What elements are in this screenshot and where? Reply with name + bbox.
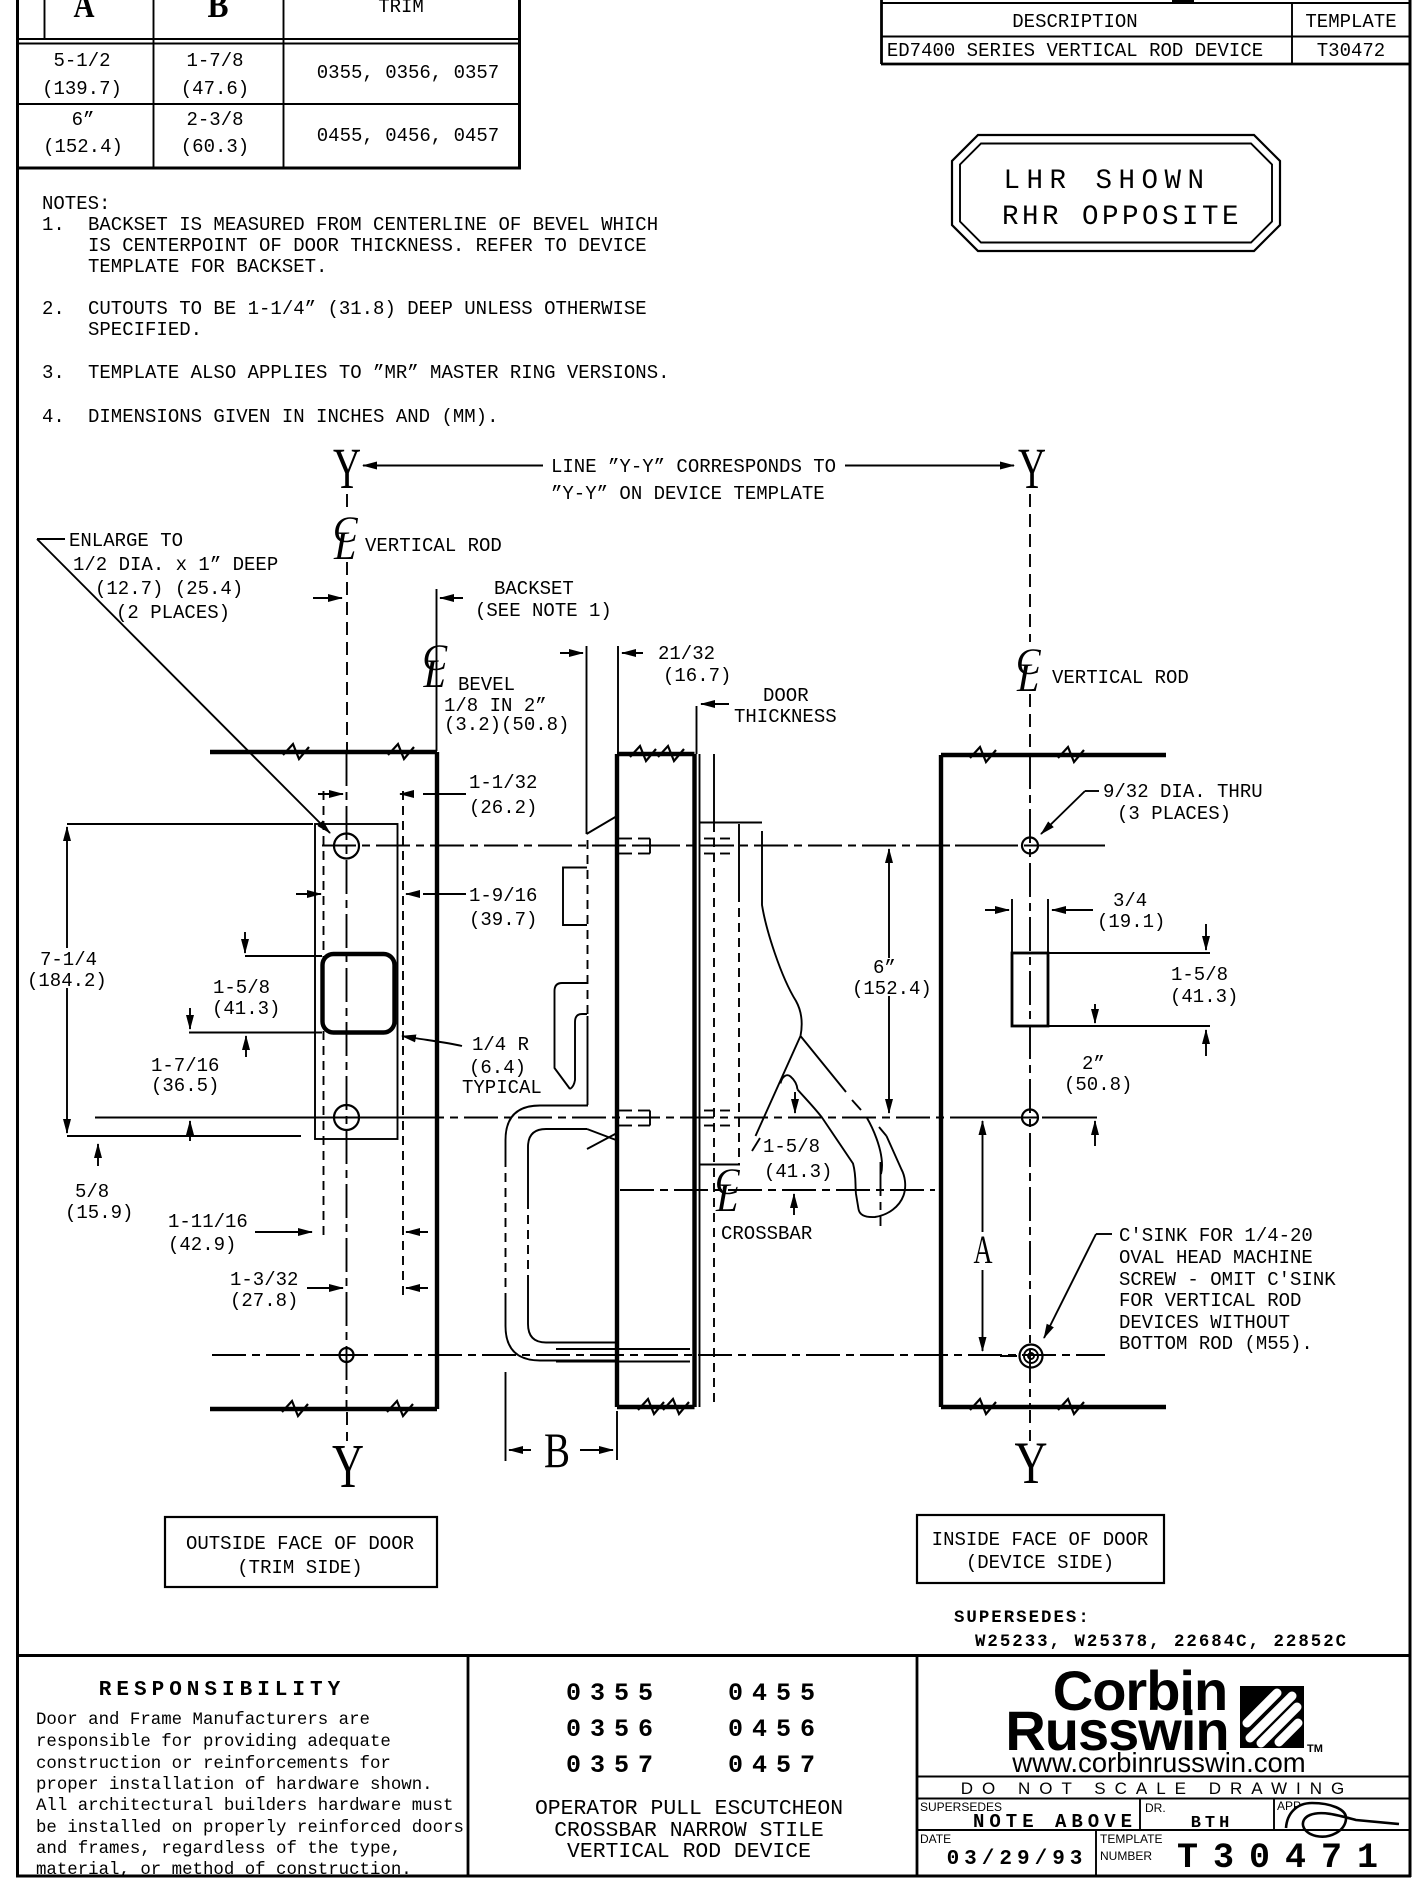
crossbar centerline xyxy=(620,1189,935,1191)
LEFT DOOR elevation xyxy=(210,744,437,1501)
svg-text:(DEVICE SIDE): (DEVICE SIDE) xyxy=(966,1552,1114,1574)
svg-text:ENLARGE TO: ENLARGE TO xyxy=(69,530,183,552)
svg-text:5-1/2: 5-1/2 xyxy=(53,50,110,72)
svg-text:BOTTOM ROD (M55).: BOTTOM ROD (M55). xyxy=(1119,1333,1313,1355)
svg-text:(152.4): (152.4) xyxy=(852,978,932,1000)
svg-text:1-5/8: 1-5/8 xyxy=(1171,964,1228,986)
svg-text:construction or reinforcements: construction or reinforcements for xyxy=(36,1755,391,1774)
1-3/32 dimension xyxy=(230,1269,428,1312)
case inner hidden edge xyxy=(738,824,740,893)
svg-text:TEMPLATE ALSO APPLIES TO ”MR”: TEMPLATE ALSO APPLIES TO ”MR” MASTER RIN… xyxy=(88,362,670,384)
svg-text:(16.7): (16.7) xyxy=(663,665,731,687)
approval signature xyxy=(1286,1803,1399,1837)
top edge xyxy=(941,753,1166,757)
svg-text:B: B xyxy=(208,0,229,25)
break marks xyxy=(283,744,309,759)
B dimension xyxy=(506,1372,618,1478)
model numbers cell xyxy=(535,1679,843,1864)
svg-text:0357: 0357 xyxy=(566,1751,662,1780)
svg-text:6”: 6” xyxy=(873,957,896,979)
svg-text:3/4: 3/4 xyxy=(1113,890,1147,912)
svg-text:(39.7): (39.7) xyxy=(469,909,537,931)
C'SINK label xyxy=(1044,1225,1336,1355)
svg-text:4.: 4. xyxy=(42,406,65,428)
door lock edge xyxy=(435,752,439,1409)
device rail strip hidden xyxy=(713,754,715,823)
bottom edge xyxy=(941,1405,1166,1409)
svg-text:DESCRIPTION: DESCRIPTION xyxy=(1012,11,1137,33)
svg-text:VERTICAL ROD: VERTICAL ROD xyxy=(1052,667,1189,689)
svg-text:material, or method of constru: material, or method of construction. xyxy=(36,1861,412,1880)
case top edge xyxy=(700,822,763,824)
svg-text:LINE ”Y-Y” CORRESPONDS TO: LINE ”Y-Y” CORRESPONDS TO xyxy=(551,456,836,478)
svg-text:NUMBER: NUMBER xyxy=(1100,1849,1152,1863)
svg-text:(184.2): (184.2) xyxy=(27,970,107,992)
1-7/16 dimension xyxy=(151,1055,219,1141)
svg-text:TYPICAL: TYPICAL xyxy=(462,1077,542,1099)
1-5/8 right dimension xyxy=(1048,924,1238,1056)
svg-text:1-7/8: 1-7/8 xyxy=(186,50,243,72)
svg-text:2-3/8: 2-3/8 xyxy=(186,109,243,131)
hole mid xyxy=(334,1105,359,1130)
RIGHT DOOR elevation xyxy=(941,747,1166,1496)
leader arrow to left Y xyxy=(363,465,543,467)
svg-text:A: A xyxy=(74,0,95,25)
svg-text:BACKSET IS MEASURED FROM CENTE: BACKSET IS MEASURED FROM CENTERLINE OF B… xyxy=(88,214,658,236)
1-5/8 crossbar dimension xyxy=(752,1092,832,1215)
right face xyxy=(692,754,696,1407)
svg-text:be installed on properly reinf: be installed on properly reinforced door… xyxy=(36,1819,464,1838)
cutout rounded square xyxy=(323,954,395,1033)
svg-text:responsible for providing adeq: responsible for providing adequate xyxy=(36,1733,391,1752)
1-11/16 dimension xyxy=(168,1211,428,1256)
svg-text:0355, 0356, 0357: 0355, 0356, 0357 xyxy=(317,62,499,84)
page border bottom xyxy=(16,1875,1411,1878)
svg-text:VERTICAL ROD DEVICE: VERTICAL ROD DEVICE xyxy=(567,1840,811,1864)
svg-text:BTH: BTH xyxy=(1191,1814,1234,1833)
svg-text:DR.: DR. xyxy=(1145,1801,1166,1815)
svg-text:C'SINK FOR 1/4-20: C'SINK FOR 1/4-20 xyxy=(1119,1225,1313,1247)
enlarge-to label with leader xyxy=(37,530,330,833)
svg-text:(2 PLACES): (2 PLACES) xyxy=(116,602,230,624)
svg-text:TEMPLATE: TEMPLATE xyxy=(1305,11,1396,33)
strike bevel bottom taper xyxy=(587,1133,617,1149)
device rail strip solid xyxy=(699,754,701,1407)
fork hump cap xyxy=(781,1075,798,1089)
lower arm and foot outline xyxy=(798,1090,906,1218)
svg-text:T30472: T30472 xyxy=(1317,40,1385,62)
MIDDLE DOOR cross-section xyxy=(556,746,762,1414)
svg-text:(60.3): (60.3) xyxy=(181,136,249,158)
vertical rod rect xyxy=(1012,953,1048,1026)
svg-text:(139.7): (139.7) xyxy=(42,78,122,100)
svg-text:1-7/16: 1-7/16 xyxy=(151,1055,219,1077)
svg-text:9/32 DIA. THRU: 9/32 DIA. THRU xyxy=(1103,781,1263,803)
svg-text:CROSSBAR: CROSSBAR xyxy=(721,1223,812,1245)
strike keepers between doors xyxy=(555,816,618,1149)
svg-text:2”: 2” xyxy=(1082,1053,1105,1075)
6 inch dimension xyxy=(852,849,932,1113)
svg-text:(12.7) (25.4): (12.7) (25.4) xyxy=(95,578,243,600)
svg-text:DEVICES WITHOUT: DEVICES WITHOUT xyxy=(1119,1312,1290,1334)
svg-text:L: L xyxy=(423,651,446,696)
arm right edge dash xyxy=(879,1127,887,1136)
responsibility cell xyxy=(36,1679,464,1880)
9/32 dia label xyxy=(1041,781,1263,834)
horizontal centerline mid holes xyxy=(95,1117,410,1119)
svg-text:SUPERSEDES:: SUPERSEDES: xyxy=(954,1609,1091,1628)
svg-text:(3 PLACES): (3 PLACES) xyxy=(1117,803,1231,825)
svg-text:(42.9): (42.9) xyxy=(168,1234,236,1256)
title block frame xyxy=(16,1655,1410,1876)
leader arrow to right Y xyxy=(845,465,1014,467)
svg-text:Y: Y xyxy=(332,1433,364,1501)
svg-text:L: L xyxy=(715,1175,738,1220)
lower keeper hook inner xyxy=(570,1014,587,1089)
svg-text:RESPONSIBILITY: RESPONSIBILITY xyxy=(99,1679,345,1702)
1/4 R typical label xyxy=(402,1034,542,1099)
svg-text:0455, 0456, 0457: 0455, 0456, 0457 xyxy=(317,125,499,147)
hidden hole marks top xyxy=(619,839,730,854)
svg-text:5/8: 5/8 xyxy=(75,1181,109,1203)
svg-text:(SEE NOTE 1): (SEE NOTE 1) xyxy=(475,600,612,622)
svg-text:DATE: DATE xyxy=(920,1832,951,1846)
rod tip line xyxy=(587,1016,589,1105)
svg-text:OVAL HEAD MACHINE: OVAL HEAD MACHINE xyxy=(1119,1247,1313,1269)
handle inner xyxy=(528,1129,587,1200)
left CL vertical rod xyxy=(333,494,502,751)
door thickness label xyxy=(697,685,837,754)
svg-text:W25233, W25378, 22684C, 22852C: W25233, W25378, 22684C, 22852C xyxy=(975,1633,1348,1652)
door bottom edge xyxy=(210,1407,437,1411)
svg-text:Y: Y xyxy=(1018,436,1046,501)
svg-text:THICKNESS: THICKNESS xyxy=(734,706,837,728)
1-9/16 dimension xyxy=(296,885,537,931)
svg-text:proper installation of hardwar: proper installation of hardware shown. xyxy=(36,1776,433,1795)
svg-text:SPECIFIED.: SPECIFIED. xyxy=(88,319,202,341)
lower keeper hook outer xyxy=(555,983,588,1089)
svg-text:TRIM: TRIM xyxy=(378,0,424,18)
svg-text:All architectural builders har: All architectural builders hardware must xyxy=(36,1797,453,1816)
1-1/32 dimension xyxy=(318,772,537,819)
svg-text:21/32: 21/32 xyxy=(658,643,715,665)
svg-text:(50.8): (50.8) xyxy=(1064,1074,1132,1096)
svg-text:1/2 DIA. x 1” DEEP: 1/2 DIA. x 1” DEEP xyxy=(73,554,278,576)
bottom edge xyxy=(617,1405,695,1409)
fork left edge xyxy=(756,1036,801,1136)
svg-text:”Y-Y” ON DEVICE TEMPLATE: ”Y-Y” ON DEVICE TEMPLATE xyxy=(551,483,825,505)
svg-text:L: L xyxy=(1016,655,1039,700)
arm upper edge with gap xyxy=(801,1036,847,1092)
svg-text:(41.3): (41.3) xyxy=(212,998,280,1020)
svg-text:1-11/16: 1-11/16 xyxy=(168,1211,248,1233)
svg-text:1-1/32: 1-1/32 xyxy=(469,772,537,794)
horizontal centerline top holes xyxy=(322,845,1105,847)
1-5/8 left dimension xyxy=(189,932,322,1057)
svg-text:IS CENTERPOINT OF DOOR THICKNE: IS CENTERPOINT OF DOOR THICKNESS. REFER … xyxy=(88,235,647,257)
svg-text:L: L xyxy=(333,523,356,568)
svg-text:1-5/8: 1-5/8 xyxy=(763,1136,820,1158)
horizontal centerline bottom holes xyxy=(212,1354,1105,1356)
foot centerline xyxy=(880,1162,882,1226)
page border right xyxy=(1409,0,1412,1877)
top-right table DESCRIPTION/TEMPLATE xyxy=(881,0,1410,64)
svg-text:(26.2): (26.2) xyxy=(469,797,537,819)
title block right rows xyxy=(917,1777,1410,1879)
svg-text:Y: Y xyxy=(333,436,361,501)
inside face label box xyxy=(917,1515,1164,1583)
left face xyxy=(615,754,619,1407)
svg-text:LHR SHOWN: LHR SHOWN xyxy=(1003,166,1210,197)
svg-text:(41.3): (41.3) xyxy=(764,1161,832,1183)
svg-text:ED7400 SERIES VERTICAL ROD DEV: ED7400 SERIES VERTICAL ROD DEVICE xyxy=(887,40,1263,62)
svg-text:www.corbinrusswin.com: www.corbinrusswin.com xyxy=(1011,1747,1305,1778)
svg-text:3.: 3. xyxy=(42,362,65,384)
hidden keeper dashed line xyxy=(587,840,589,1014)
svg-text:Door and Frame Manufacturers a: Door and Frame Manufacturers are xyxy=(36,1711,370,1730)
svg-text:(47.6): (47.6) xyxy=(181,78,249,100)
crank lever arm xyxy=(756,831,906,1226)
hole bottom small xyxy=(340,1348,354,1362)
hole top xyxy=(334,834,359,859)
CL bevel line xyxy=(423,589,570,751)
svg-text:B: B xyxy=(544,1422,570,1478)
hole top small xyxy=(1022,838,1038,854)
svg-text:NOTES:: NOTES: xyxy=(42,193,110,215)
svg-text:1-5/8: 1-5/8 xyxy=(213,977,270,999)
svg-text:1-9/16: 1-9/16 xyxy=(469,885,537,907)
door centerline xyxy=(346,752,348,1409)
crossbar handle profile xyxy=(506,1106,617,1361)
svg-text:A: A xyxy=(974,1227,993,1272)
7-1/4 dimension xyxy=(27,824,313,1136)
svg-text:NOTE ABOVE: NOTE ABOVE xyxy=(973,1811,1137,1833)
upper keeper xyxy=(563,868,587,926)
svg-text:BACKSET: BACKSET xyxy=(494,578,574,600)
svg-text:1-3/32: 1-3/32 xyxy=(230,1269,298,1291)
svg-text:(15.9): (15.9) xyxy=(65,1202,133,1224)
top-left table A/B/TRIM xyxy=(17,0,521,168)
corbin russwin logo xyxy=(1005,1659,1323,1778)
svg-text:and frames, regardless of the: and frames, regardless of the type, xyxy=(36,1840,401,1859)
bevel taper diagonal xyxy=(587,816,618,834)
svg-text:03/29/93: 03/29/93 xyxy=(947,1848,1088,1871)
hidden device dashed right xyxy=(402,791,404,1296)
svg-text:DO NOT SCALE DRAWING: DO NOT SCALE DRAWING xyxy=(961,1779,1354,1798)
svg-text:RHR OPPOSITE: RHR OPPOSITE xyxy=(1002,202,1242,233)
svg-text:(27.8): (27.8) xyxy=(230,1290,298,1312)
LHR SHOWN RHR OPPOSITE badge xyxy=(952,135,1280,251)
svg-text:OUTSIDE FACE OF DOOR: OUTSIDE FACE OF DOOR xyxy=(186,1533,414,1555)
svg-text:FOR VERTICAL ROD: FOR VERTICAL ROD xyxy=(1119,1290,1301,1312)
svg-text:0456: 0456 xyxy=(728,1715,824,1744)
2 inch dimension xyxy=(1064,1004,1132,1146)
svg-text:0455: 0455 xyxy=(728,1679,824,1708)
svg-text:(6.4): (6.4) xyxy=(469,1057,526,1079)
svg-text:TEMPLATE FOR BACKSET.: TEMPLATE FOR BACKSET. xyxy=(88,256,327,278)
trim plate outline xyxy=(315,824,398,1139)
CL crossbar label xyxy=(715,1162,812,1245)
supersedes note xyxy=(954,1609,1348,1652)
handle mount taper xyxy=(587,1129,616,1140)
Y-Y header: left Y xyxy=(333,436,1046,505)
outside face label box xyxy=(165,1517,437,1587)
svg-text:TM: TM xyxy=(1307,1743,1323,1755)
svg-text:DIMENSIONS GIVEN IN INCHES AND: DIMENSIONS GIVEN IN INCHES AND (MM). xyxy=(88,406,498,428)
svg-text:0355: 0355 xyxy=(566,1679,662,1708)
upper arm left edge xyxy=(762,831,802,1036)
5/8 dimension xyxy=(65,1144,133,1224)
svg-text:INSIDE FACE OF DOOR: INSIDE FACE OF DOOR xyxy=(932,1529,1149,1551)
notes block xyxy=(42,193,670,428)
svg-text:SCREW - OMIT C'SINK: SCREW - OMIT C'SINK xyxy=(1119,1269,1336,1291)
bottom rod strike bars xyxy=(556,1348,690,1350)
svg-text:(152.4): (152.4) xyxy=(43,136,123,158)
svg-text:(3.2)(50.8): (3.2)(50.8) xyxy=(444,714,569,736)
3/4 dimension xyxy=(985,890,1165,953)
hidden device dashed left xyxy=(323,791,325,1240)
A dimension xyxy=(974,1121,993,1351)
svg-text:BEVEL: BEVEL xyxy=(458,674,515,696)
svg-text:TEMPLATE: TEMPLATE xyxy=(1100,1832,1162,1846)
svg-text:7-1/4: 7-1/4 xyxy=(40,949,97,971)
hidden hole marks mid xyxy=(619,1111,730,1126)
centerline xyxy=(1029,755,1031,1407)
svg-text:2.: 2. xyxy=(42,298,65,320)
handle outer xyxy=(506,1106,589,1159)
hole mid small xyxy=(1022,1110,1038,1126)
svg-text:0457: 0457 xyxy=(728,1751,824,1780)
21/32 dimension xyxy=(560,643,731,834)
left edge xyxy=(939,755,943,1407)
svg-text:1/4 R: 1/4 R xyxy=(472,1034,529,1056)
svg-text:CUTOUTS TO BE 1-1/4” (31.8) DE: CUTOUTS TO BE 1-1/4” (31.8) DEEP UNLESS … xyxy=(88,298,647,320)
backset dimension xyxy=(313,578,612,622)
svg-text:(36.5): (36.5) xyxy=(151,1075,219,1097)
svg-text:DOOR: DOOR xyxy=(763,685,809,707)
svg-text:Y: Y xyxy=(1015,1430,1048,1496)
svg-text:T30471: T30471 xyxy=(1177,1838,1393,1878)
svg-text:(41.3): (41.3) xyxy=(1170,986,1238,1008)
svg-text:VERTICAL ROD: VERTICAL ROD xyxy=(365,535,502,557)
door top edge xyxy=(210,750,437,754)
svg-text:(19.1): (19.1) xyxy=(1097,911,1165,933)
right CL vertical rod xyxy=(1016,494,1189,754)
top edge xyxy=(617,752,695,756)
page border left xyxy=(16,0,19,1877)
hole bottom countersunk xyxy=(1020,1345,1043,1368)
svg-text:(TRIM SIDE): (TRIM SIDE) xyxy=(237,1557,362,1579)
svg-text:0356: 0356 xyxy=(566,1715,662,1744)
case bottom edge xyxy=(700,1164,741,1166)
svg-text:OPERATOR PULL ESCUTCHEON: OPERATOR PULL ESCUTCHEON xyxy=(535,1797,843,1821)
svg-text:6”: 6” xyxy=(72,109,95,131)
svg-text:1.: 1. xyxy=(42,214,65,236)
